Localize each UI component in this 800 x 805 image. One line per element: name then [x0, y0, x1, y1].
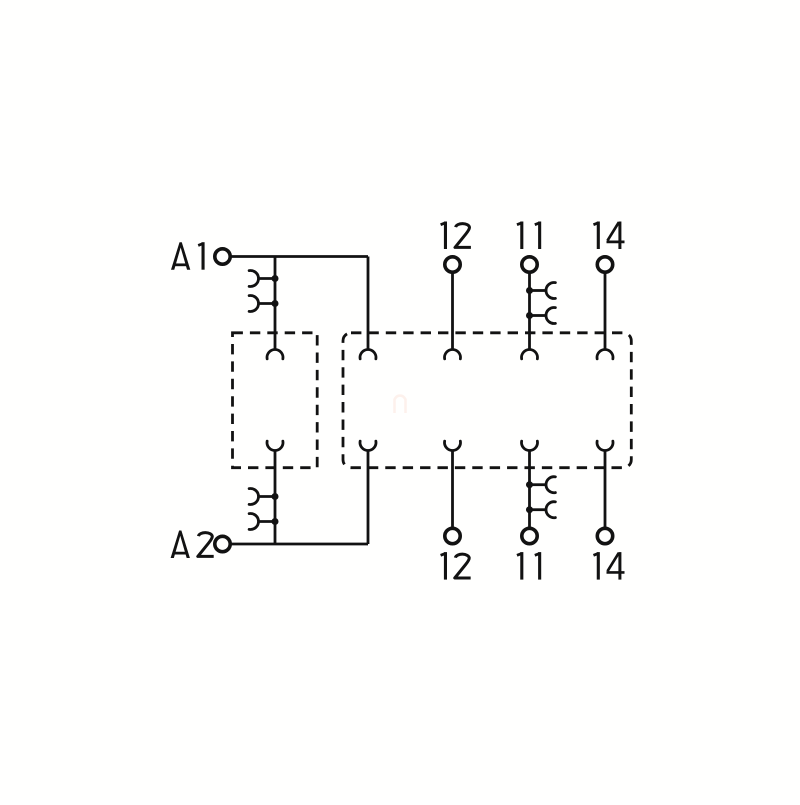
wire contact bottom 1 to A2 bus: [367, 450, 370, 545]
wire stub 11 top lower: [530, 314, 546, 317]
junction dot 11 top upper: [526, 287, 533, 294]
junction dot coil lower: [272, 300, 279, 307]
plug socket coil upper: [249, 271, 258, 287]
plug socket coil lower-upper: [249, 489, 258, 505]
label A1: [171, 242, 190, 270]
wire stub A2 coil lower: [259, 520, 276, 523]
junction dot A2 coil lower: [272, 518, 279, 525]
socket arc coil bottom: [267, 441, 283, 450]
wire 11 bottom: [528, 450, 531, 529]
faint watermark mark: [395, 396, 406, 413]
wire 14 top: [604, 272, 607, 350]
socket arc contact bottom 1: [360, 441, 376, 450]
label 11 top: [517, 222, 522, 250]
wire stub coil upper: [259, 277, 276, 280]
socket arc contact bottom 4: [597, 441, 613, 450]
wire stub coil lower: [259, 302, 276, 305]
plug socket coil lower-lower: [249, 514, 258, 530]
wire coil bottom to A2 bus: [274, 450, 277, 545]
socket arc contact bottom 3: [522, 441, 538, 450]
wire 14 bottom: [604, 450, 607, 529]
label 12 bottom: [441, 552, 446, 580]
wire stub A2 coil upper: [259, 495, 276, 498]
socket arc contact top 4: [597, 350, 613, 359]
wire stub 11 top upper: [530, 289, 546, 292]
module outline contacts (dashed, rounded): [343, 333, 631, 468]
terminal 11 bottom: [522, 528, 537, 543]
plug socket 11 bottom upper: [546, 477, 555, 493]
wire A2 horizontal bus: [230, 543, 368, 546]
wire A1 down to relay module socket: [367, 257, 370, 351]
junction dot 11 bottom upper: [526, 481, 533, 488]
wire A1 horizontal bus: [230, 255, 368, 258]
plug socket 11 bottom lower: [546, 502, 555, 518]
junction dot 11 top lower: [526, 312, 533, 319]
junction dot A2 coil upper: [272, 493, 279, 500]
socket arc contact bottom 2: [445, 441, 461, 450]
wire stub 11 bottom upper: [530, 483, 546, 486]
junction dot coil upper: [272, 275, 279, 282]
wire 11 top: [528, 272, 531, 350]
wire 12 bottom: [451, 450, 454, 529]
socket arc coil top: [267, 350, 283, 359]
label A2: [171, 531, 190, 559]
terminal 14 top: [597, 257, 612, 272]
socket arc contact top 3: [522, 350, 538, 359]
terminal A1: [215, 249, 230, 264]
socket arc contact top 2: [445, 350, 461, 359]
label 11 bottom: [517, 552, 522, 580]
terminal 14 bottom: [597, 528, 612, 543]
module outline coil (dashed): [233, 333, 318, 468]
label 12 top: [441, 222, 446, 250]
wire A1 branch to coil contact column: [274, 257, 277, 351]
terminal 12 bottom: [445, 528, 460, 543]
terminal 12 top: [445, 257, 460, 272]
plug socket 11 top lower: [546, 307, 555, 323]
terminal 11 top: [522, 257, 537, 272]
wire stub 11 bottom lower: [530, 508, 546, 511]
wire 12 top: [451, 272, 454, 350]
junction dot 11 bottom lower: [526, 506, 533, 513]
plug socket 11 top upper: [546, 283, 555, 299]
terminal A2: [215, 536, 230, 551]
plug socket coil lower: [249, 296, 258, 312]
socket arc contact top 1: [360, 350, 376, 359]
label 14 bottom: [593, 552, 598, 580]
label 14 top: [593, 222, 598, 250]
